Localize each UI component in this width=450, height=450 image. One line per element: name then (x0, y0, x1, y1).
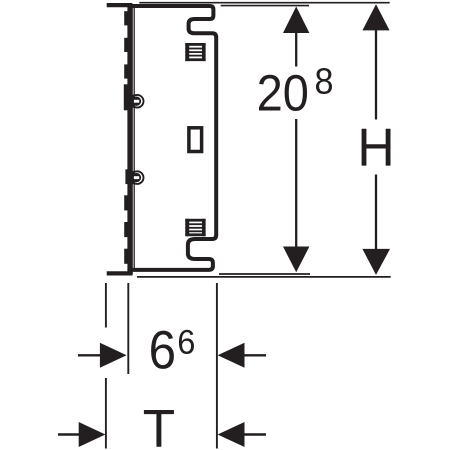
vertical extension line left (T) (105, 283, 107, 449)
rail slot 6 (124, 249, 128, 264)
middle rectangular slot (189, 128, 202, 152)
label H (362, 129, 391, 166)
bottom wall flange (107, 271, 133, 275)
dimension 6.6 left stub (78, 354, 101, 356)
dimension 20.8 bottom arrow (283, 247, 309, 273)
dimension H upper stem (375, 28, 377, 120)
extension line top (20.8 level) (221, 5, 309, 7)
dimension 6.6 left arrow (100, 343, 127, 368)
rail slot 1 (124, 11, 128, 25)
dimension 20.8 lower stem (295, 119, 297, 248)
rail web (127, 4, 132, 275)
rail slot 5 (124, 222, 128, 237)
rail slot 3 (124, 64, 128, 78)
screw 1 head (130, 95, 144, 108)
dimension T left arrow (79, 422, 106, 447)
screw 2 head (130, 171, 144, 184)
extension line bottom (H level) (137, 276, 391, 278)
dimension T right arrow (218, 422, 245, 447)
dimension T right stub (244, 433, 266, 435)
label superscript 6 (179, 330, 194, 354)
vertical extension line middle (6.6) (127, 283, 129, 374)
extension line bottom (20.8 level) (219, 273, 310, 275)
threaded boss top (ladder) (185, 43, 205, 61)
dimension 6.6 right stub (244, 354, 266, 356)
extension line top (H level) (139, 2, 389, 4)
top wall flange (107, 3, 132, 7)
dimension 20.8 upper stem (295, 31, 297, 67)
threaded boss bottom (ladder) (185, 219, 205, 236)
label superscript 8 (316, 68, 332, 94)
label T (144, 410, 174, 447)
dimension T left stub (58, 433, 80, 435)
dimension 6.6 right arrow (218, 343, 245, 368)
screw 2 slot bar (125, 169, 132, 184)
label 20 (259, 75, 307, 111)
dimension H bottom arrow (362, 249, 390, 275)
label 6 (151, 331, 174, 369)
rail inner thin line (133, 7, 135, 271)
dimension H lower stem (375, 175, 377, 252)
vertical extension line right (216, 283, 218, 449)
rail slot 2 (124, 38, 128, 52)
bracket body outline with top and bottom hooks (129, 6, 216, 270)
screw 1 slot bar (124, 84, 131, 110)
rail slot 4 (124, 195, 128, 210)
dimension 20.8 top arrow (283, 7, 309, 34)
dimension H top arrow (362, 4, 389, 30)
